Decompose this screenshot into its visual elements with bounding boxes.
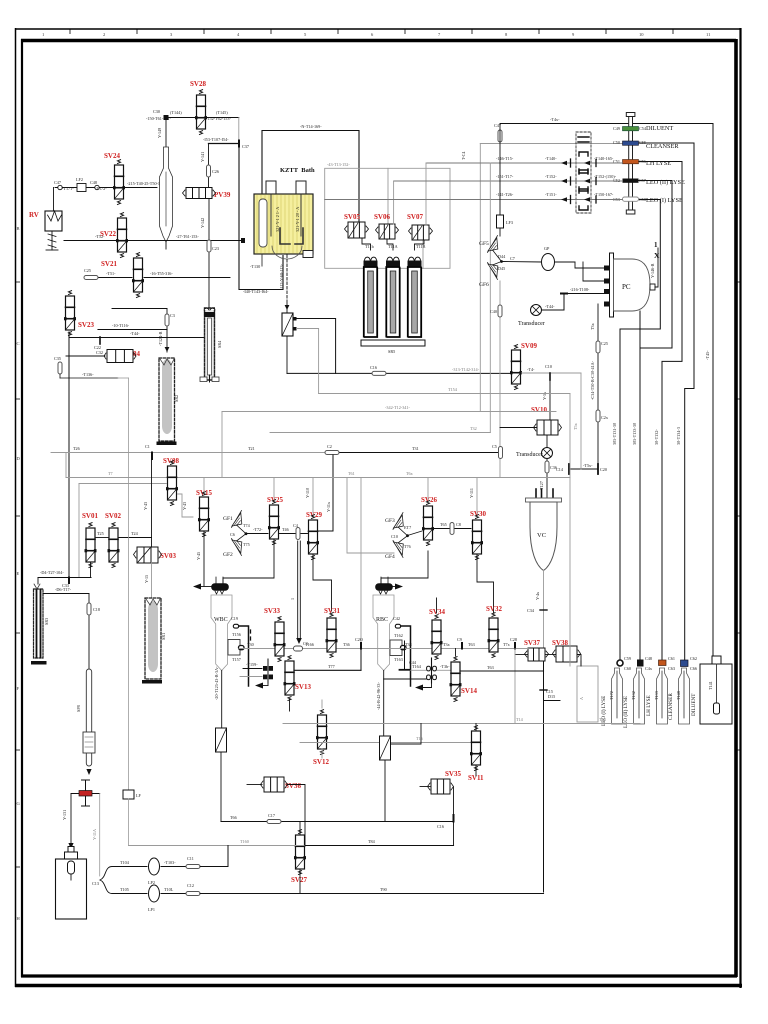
svg-text:T156: T156	[232, 632, 241, 637]
svg-text:E: E	[17, 571, 20, 576]
syringe SR pump 2	[386, 257, 399, 337]
svg-text:T163: T163	[394, 657, 403, 662]
svg-text:(T145): (T145)	[216, 110, 228, 115]
svg-text:SV33: SV33	[264, 607, 280, 615]
svg-text:T104: T104	[120, 860, 130, 865]
chamber RBC	[380, 577, 382, 584]
svg-text:ET7: ET7	[404, 525, 411, 530]
frame index marks	[17, 32, 711, 921]
cylinder SR3	[31, 578, 49, 665]
ring fitting	[427, 658, 437, 683]
rail T16 gray	[300, 742, 476, 744]
flask LEO II	[634, 668, 645, 724]
cylinder SR2	[157, 358, 180, 445]
svg-text:SV27: SV27	[291, 876, 307, 884]
svg-text:T162: T162	[394, 633, 403, 638]
svg-text:-44-B-42-96-33-: -44-B-42-96-33-	[376, 681, 381, 710]
level sensor	[297, 541, 299, 639]
svg-text:Y-110: Y-110	[305, 488, 310, 498]
svg-text:-T150-167-: -T150-167-	[594, 192, 614, 197]
wire T159	[243, 668, 262, 670]
svg-text:SV02: SV02	[105, 512, 121, 520]
wire SV26 to SV30	[434, 528, 471, 530]
riser to C13	[99, 794, 101, 877]
node C20	[360, 643, 362, 649]
svg-text:SP8: SP8	[76, 705, 81, 712]
svg-text:-D6-T17-: -D6-T17-	[55, 587, 72, 592]
svg-text:SV07: SV07	[407, 213, 423, 221]
svg-text:LP2: LP2	[148, 880, 155, 885]
svg-text:C13: C13	[92, 881, 99, 886]
svg-text:-342-T12-341-: -342-T12-341-	[385, 405, 410, 410]
check valve	[282, 313, 293, 336]
svg-text:C48: C48	[90, 180, 97, 185]
svg-text:-151-T17-: -151-T17-	[496, 174, 514, 179]
connector LEO II (black)	[623, 179, 639, 183]
svg-text:T26: T26	[73, 446, 80, 451]
svg-text:-I40-T143-I64-: -I40-T143-I64-	[243, 289, 269, 294]
svg-text:T32: T32	[470, 426, 477, 431]
svg-text:T172: T172	[609, 691, 614, 700]
manifold dashed box	[576, 132, 591, 213]
connector LEO I (white)	[623, 197, 639, 201]
svg-text:RBC: RBC	[376, 617, 388, 623]
svg-text:-T140-165-: -T140-165-	[594, 156, 614, 161]
svg-text:T74: T74	[243, 523, 251, 528]
rail T154 gray	[319, 393, 570, 395]
svg-text:C25: C25	[84, 268, 91, 273]
svg-text:C18: C18	[93, 607, 100, 612]
sample bottle	[70, 794, 72, 853]
svg-text:-T152-(150)-: -T152-(150)-	[594, 174, 617, 179]
svg-text:-T5x-: -T5x-	[583, 463, 593, 468]
svg-text:-C34-T50-B-C30-41A-: -C34-T50-B-C30-41A-	[590, 360, 595, 400]
svg-text:T65: T65	[440, 522, 447, 527]
rail T90	[200, 893, 544, 895]
flask LEO I	[612, 668, 623, 724]
wire SV10 feed	[549, 380, 551, 419]
chamber VC	[526, 489, 562, 571]
svg-text:-T151-: -T151-	[545, 192, 557, 197]
red clamp bar	[79, 791, 92, 797]
svg-text:SR1: SR1	[161, 633, 166, 640]
svg-text:DILUENT: DILUENT	[646, 125, 673, 132]
rail chamber bottom	[239, 648, 528, 650]
wire T142 black	[297, 319, 336, 374]
svg-text:Y-142: Y-142	[200, 218, 205, 228]
reagent connector tube	[626, 113, 635, 215]
transducer 2	[546, 435, 548, 448]
wire rail y240	[64, 240, 243, 242]
svg-text:CLEANSER: CLEANSER	[668, 693, 674, 720]
svg-text:-T3b-: -T3b-	[440, 664, 450, 669]
svg-text:A: A	[579, 697, 584, 700]
svg-text:C30: C30	[153, 109, 160, 114]
svg-text:C34: C34	[527, 608, 535, 613]
svg-text:-43-T13-152-: -43-T13-152-	[327, 162, 350, 167]
svg-text:T11b: T11b	[365, 244, 374, 249]
svg-text:-152-T62-153-: -152-T62-153-	[206, 116, 231, 121]
svg-text:10: 10	[639, 32, 644, 37]
wire to flask	[165, 117, 167, 147]
wire LEO II supply	[639, 181, 673, 664]
svg-text:Y-146-B: Y-146-B	[650, 263, 655, 278]
rail T32 black	[270, 432, 490, 434]
syringe base plate	[361, 340, 425, 346]
wire T25/T24	[96, 537, 108, 539]
node C16	[453, 815, 455, 822]
svg-text:C36: C36	[550, 465, 557, 470]
svg-text:T25: T25	[97, 531, 104, 536]
wire T51	[98, 277, 132, 279]
svg-text:-T124-B: -T124-B	[158, 331, 163, 346]
op PC counter	[604, 253, 655, 317]
node C62	[681, 660, 689, 667]
svg-text:C12: C12	[187, 883, 194, 888]
svg-text:C: C	[17, 341, 20, 346]
svg-text:-T4-: -T4-	[527, 367, 535, 372]
cylinder SR1	[142, 598, 166, 684]
pinch clamp	[71, 793, 100, 795]
svg-text:T66: T66	[230, 815, 237, 820]
valve SV14	[455, 649, 457, 657]
svg-text:SV14: SV14	[461, 687, 477, 695]
svg-text:LH LYSE: LH LYSE	[646, 160, 671, 167]
wire T17	[43, 593, 89, 595]
drain arrow	[261, 685, 268, 687]
svg-text:GF5: GF5	[479, 241, 489, 247]
svg-text:-T171-: -T171-	[62, 186, 74, 191]
wire C37 riser	[238, 118, 240, 144]
filter LF2	[77, 184, 86, 192]
svg-text:C58: C58	[639, 197, 646, 202]
svg-text:KZTT Bath: KZTT Bath	[280, 167, 315, 174]
svg-text:DILUENT: DILUENT	[691, 693, 697, 716]
syringe SR pump 3	[408, 257, 421, 337]
svg-text:-T103-: -T103-	[164, 860, 176, 865]
svg-text:LP1: LP1	[148, 907, 155, 912]
SECTION: TOPMID	[250, 124, 511, 394]
wire T154 gray feed	[297, 329, 319, 394]
wire down left bus	[68, 332, 70, 577]
svg-text:T105: T105	[120, 887, 129, 892]
svg-text:T24: T24	[131, 531, 139, 536]
svg-text:T31: T31	[412, 446, 419, 451]
svg-text:Y-43: Y-43	[143, 502, 148, 510]
svg-text:PC: PC	[622, 283, 631, 291]
svg-text:SV01: SV01	[82, 512, 98, 520]
svg-text:SV21: SV21	[101, 260, 117, 268]
filter SP8	[86, 669, 91, 766]
wire T61 top	[166, 117, 239, 119]
node C14-C20	[569, 468, 598, 470]
svg-text:T63: T63	[487, 665, 494, 670]
svg-text:C66: C66	[690, 666, 697, 671]
svg-text:C50: C50	[613, 140, 620, 145]
svg-text:305-T131-30: 305-T131-30	[612, 423, 617, 445]
wire T77	[294, 669, 361, 671]
svg-text:Y-11A: Y-11A	[92, 829, 97, 840]
rail T66	[221, 821, 454, 823]
svg-text:SV36: SV36	[285, 782, 301, 790]
wire CLEANSER supply	[639, 143, 695, 663]
wire T44 rail	[69, 337, 206, 339]
svg-text:Y-141: Y-141	[200, 152, 205, 162]
connector DILUENT (green)	[623, 127, 639, 131]
svg-text:SV09: SV09	[521, 342, 537, 350]
svg-text:SR2: SR2	[174, 395, 179, 402]
svg-text:T141: T141	[708, 681, 713, 690]
svg-text:-N-T14-169-: -N-T14-169-	[300, 124, 322, 129]
svg-text:T133: T133	[654, 691, 659, 700]
svg-text:Y-15: Y-15	[144, 575, 149, 583]
svg-text:PV39: PV39	[214, 191, 231, 199]
flask CLEANSER	[679, 668, 690, 724]
wire C4 to SV29	[280, 533, 308, 535]
svg-text:LEO (I) LYSE: LEO (I) LYSE	[646, 197, 683, 204]
svg-text:C60: C60	[624, 666, 631, 671]
svg-text:T11A: T11A	[388, 244, 398, 249]
feed SV26 to RBC	[381, 551, 428, 584]
wire flask bottom	[165, 242, 167, 249]
wire SV06 feed	[387, 168, 389, 224]
svg-text:30-T134-3: 30-T134-3	[676, 427, 681, 445]
svg-text:C42: C42	[393, 616, 400, 621]
svg-text:-T4x-: -T4x-	[550, 117, 560, 122]
svg-text:SV13: SV13	[295, 683, 311, 691]
svg-text:T64: T64	[599, 717, 607, 722]
svg-text:-20-T125-43-B-3A-: -20-T125-43-B-3A-	[214, 666, 219, 700]
wire PC drain	[639, 311, 641, 348]
svg-text:-T152-: -T152-	[545, 174, 557, 179]
rail T31 black	[333, 452, 499, 454]
svg-text:T34: T34	[405, 642, 413, 647]
svg-text:SV31: SV31	[324, 607, 340, 615]
svg-text:-112-Y-68-113-: -112-Y-68-113-	[279, 263, 284, 290]
svg-text:1: 1	[290, 598, 295, 600]
node C28	[514, 643, 516, 649]
svg-text:Y-149: Y-149	[157, 128, 162, 138]
svg-text:-T140-: -T140-	[545, 156, 557, 161]
svg-text:C9: C9	[457, 637, 462, 642]
svg-text:C63: C63	[668, 666, 675, 671]
svg-text:SV22: SV22	[100, 230, 116, 238]
svg-text:LEO (II) LYSE: LEO (II) LYSE	[646, 179, 685, 186]
svg-text:C49: C49	[613, 126, 620, 131]
rail T12 gray	[222, 411, 556, 413]
wire bath drain dashed	[286, 255, 288, 300]
svg-text:C55: C55	[639, 140, 646, 145]
rail T84	[129, 845, 306, 847]
svg-text:T76: T76	[404, 544, 411, 549]
wire PV39 down	[208, 199, 210, 308]
svg-text:C59: C59	[624, 656, 631, 661]
connector CLEANSER (blue)	[623, 141, 639, 145]
svg-text:C3: C3	[170, 313, 175, 318]
T163 dead end	[404, 641, 406, 669]
wire N-T14	[262, 131, 359, 223]
pinch valve RBC	[380, 736, 391, 760]
svg-text:-313-T142-314-: -313-T142-314-	[452, 367, 480, 372]
svg-text:T7: T7	[108, 471, 113, 476]
svg-text:VC: VC	[537, 532, 546, 539]
svg-text:Y-43: Y-43	[182, 502, 187, 510]
svg-text:C4x: C4x	[645, 666, 653, 671]
svg-text:C61: C61	[668, 656, 675, 661]
svg-text:C56: C56	[639, 159, 646, 164]
wire LH LYSE supply	[639, 162, 683, 664]
svg-text:WBC: WBC	[214, 617, 228, 623]
svg-text:-216-T108-: -216-T108-	[570, 287, 590, 292]
SECTION: RIGHT	[325, 113, 732, 893]
svg-text:Y-11x: Y-11x	[326, 501, 331, 512]
svg-text:GF2: GF2	[223, 552, 233, 558]
wire D15	[544, 700, 561, 702]
svg-text:X: X	[654, 251, 660, 260]
wires valves to syringes	[362, 238, 371, 250]
svg-text:C2x: C2x	[601, 415, 609, 420]
svg-text:2: 2	[103, 32, 105, 37]
svg-text:SV10: SV10	[531, 406, 547, 414]
SECTION: TOPLEFT	[29, 80, 283, 577]
flask LH	[657, 668, 668, 724]
node C5	[499, 447, 503, 459]
svg-text:Transducer: Transducer	[518, 321, 545, 327]
svg-text:C62: C62	[690, 656, 697, 661]
svg-text:-T51-: -T51-	[106, 271, 116, 276]
wire T171 rail	[55, 187, 113, 189]
feed SV15 to WBC	[223, 539, 274, 584]
svg-text:SR5: SR5	[388, 349, 395, 354]
svg-text:C7: C7	[510, 256, 515, 261]
svg-text:SV05: SV05	[344, 213, 360, 221]
svg-text:Y-4x: Y-4x	[535, 591, 540, 600]
svg-text:1: 1	[42, 32, 44, 37]
node C3b	[294, 646, 303, 651]
node C2	[325, 451, 339, 455]
node C59	[617, 660, 623, 666]
svg-text:-T130: -T130	[250, 264, 260, 269]
wire SV37 ports	[515, 654, 528, 656]
svg-text:C44: C44	[409, 660, 417, 665]
svg-text:T11B: T11B	[416, 244, 426, 249]
svg-text:1: 1	[654, 241, 658, 249]
svg-text:GP: GP	[544, 246, 550, 251]
svg-text:-T136-: -T136-	[82, 372, 94, 377]
svg-text:CLEANSER: CLEANSER	[646, 143, 679, 150]
svg-text:Y-131: Y-131	[62, 810, 67, 820]
node C61	[659, 660, 667, 666]
svg-text:SV28: SV28	[190, 80, 206, 88]
svg-text:C10: C10	[545, 364, 552, 369]
svg-text:SR3: SR3	[44, 618, 49, 625]
svg-text:T7x: T7x	[503, 642, 511, 647]
wire T107	[209, 143, 240, 145]
node C30	[164, 115, 169, 120]
svg-text:C16: C16	[437, 824, 444, 829]
svg-text:C37: C37	[242, 144, 249, 149]
svg-text:T154: T154	[448, 387, 458, 392]
fitting C35	[58, 362, 62, 374]
wire into SR2	[112, 308, 167, 310]
svg-text:-T159-: -T159-	[246, 662, 258, 667]
svg-text:C35: C35	[54, 356, 61, 361]
svg-text:C26: C26	[212, 169, 219, 174]
node C9	[461, 643, 463, 649]
svg-text:T6x: T6x	[406, 471, 414, 476]
svg-text:T84: T84	[368, 839, 376, 844]
svg-text:GF1: GF1	[223, 516, 233, 522]
svg-text:C40: C40	[490, 309, 497, 314]
node C1	[151, 453, 153, 460]
sample probe X	[655, 248, 658, 287]
svg-text:Y-5x: Y-5x	[542, 391, 547, 400]
syringe SR pump 1	[364, 257, 377, 337]
flask chamber	[160, 147, 173, 242]
wire SV09 to C10	[522, 372, 582, 374]
valve SV13	[284, 656, 296, 701]
svg-text:T21: T21	[248, 446, 255, 451]
waste box A	[577, 666, 598, 722]
gray riser to C20	[580, 373, 582, 469]
svg-text:-D4-T27-104-: -D4-T27-104-	[40, 570, 64, 575]
svg-text:C19: C19	[231, 616, 238, 621]
node C7	[563, 294, 565, 311]
svg-text:321-Y-1 2 1- A: 321-Y-1 2 1- A	[275, 207, 280, 232]
pump LP1	[112, 893, 147, 895]
chamber WBC	[215, 577, 217, 584]
svg-text:-T172-: -T172-	[95, 186, 107, 191]
svg-text:-10-T116-: -10-T116-	[112, 323, 130, 328]
svg-text:LF2: LF2	[76, 177, 83, 182]
svg-text:D45: D45	[498, 266, 505, 271]
svg-text:T61: T61	[348, 471, 355, 476]
node C21	[241, 238, 245, 243]
node C48	[637, 660, 644, 667]
rail C33	[38, 577, 91, 579]
pump LP2	[112, 866, 147, 868]
wire LEO I supply	[620, 200, 660, 664]
svg-text:-T72-: -T72-	[253, 527, 263, 532]
svg-text:T36: T36	[343, 642, 350, 647]
svg-text:(T144): (T144)	[170, 110, 182, 115]
pump GP	[502, 261, 543, 264]
svg-text:-T45-: -T45-	[705, 350, 710, 360]
svg-text:C48: C48	[645, 656, 652, 661]
svg-text:C17: C17	[268, 813, 275, 818]
svg-text:-16-T55-316-: -16-T55-316-	[150, 271, 173, 276]
pinch valve WBC	[216, 728, 227, 752]
svg-text:C1: C1	[145, 444, 150, 449]
svg-text:LF: LF	[136, 793, 142, 798]
svg-text:T14: T14	[516, 717, 524, 722]
rail T26 gray	[51, 452, 333, 454]
svg-text:C57: C57	[639, 178, 646, 183]
filter LF	[123, 790, 134, 799]
svg-text:T10L: T10L	[164, 887, 174, 892]
svg-text:T46: T46	[282, 527, 289, 532]
node C22	[99, 337, 101, 344]
riser from T136	[118, 377, 129, 379]
wire VC drain	[543, 571, 545, 649]
svg-text:30-T132-: 30-T132-	[654, 429, 659, 445]
svg-text:T160: T160	[240, 839, 249, 844]
svg-text:T16: T16	[416, 736, 423, 741]
svg-text:SV23: SV23	[78, 321, 94, 329]
svg-text:SR4: SR4	[217, 340, 222, 348]
svg-text:-I53-T107-I54-: -I53-T107-I54-	[203, 137, 229, 142]
wire GF6 down bus	[499, 281, 501, 478]
